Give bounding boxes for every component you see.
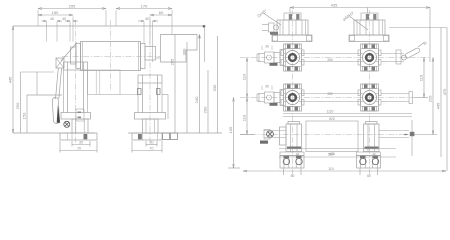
row3 axis centerline: [240, 134, 412, 136]
svg-text:110: 110: [419, 74, 424, 81]
left dim chain inner: [228, 58, 254, 169]
rear box bottom extension: [120, 94, 138, 96]
svg-text:435: 435: [331, 2, 338, 7]
svg-text:60: 60: [367, 174, 371, 178]
bearing unit row1 right: [358, 44, 381, 71]
row1 shaft between units: [302, 53, 361, 55]
mid rail: [283, 113, 412, 115]
row2 left coupling stack: [257, 90, 286, 106]
left view dimension 150: [38, 14, 73, 16]
shaft stub right: [145, 47, 156, 61]
lever pivot block: [56, 58, 64, 68]
svg-text:150: 150: [22, 112, 27, 119]
row3 right side rods and dim: [379, 120, 412, 156]
shaft stub left: [71, 47, 77, 64]
svg-text:40: 40: [296, 152, 300, 156]
svg-text:30: 30: [265, 45, 269, 49]
bearing unit row1 left: [281, 44, 304, 71]
vertical centerline left column: [292, 10, 294, 176]
row2 axis centerline: [240, 97, 414, 99]
leader 2x45 top-left: [264, 14, 281, 26]
svg-text:280: 280: [327, 58, 333, 62]
row3 beam between columns: [306, 121, 358, 152]
svg-text:2x45°: 2x45°: [256, 8, 268, 18]
foot left: [280, 152, 304, 168]
left height dimension 445: [12, 26, 14, 133]
left view dimension 60: [150, 14, 172, 16]
svg-text:520: 520: [329, 117, 335, 121]
column right: [143, 119, 159, 133]
roller axis centerline: [62, 56, 160, 58]
lever handle: [52, 97, 60, 123]
row2 shaft between units: [302, 93, 361, 95]
pivot circle symbol: [64, 121, 70, 127]
roller body: [81, 42, 141, 71]
svg-text:150: 150: [52, 10, 59, 15]
extension lines top: [38, 10, 172, 62]
top dimension line: [290, 7, 430, 62]
handle side view: [402, 55, 407, 60]
roller left cap: [76, 44, 81, 69]
roller right cap: [141, 44, 146, 69]
right pedestal flange: [135, 113, 166, 120]
base line right: [128, 132, 222, 134]
left short dims: [21, 72, 55, 133]
svg-text:255: 255: [170, 58, 175, 65]
column left: [72, 119, 88, 133]
centerline pedestal left: [75, 20, 77, 143]
left step outline: [27, 94, 62, 96]
row3 right column side: [364, 122, 380, 152]
base line left: [13, 132, 95, 134]
svg-text:40: 40: [372, 152, 376, 156]
svg-text:330: 330: [212, 84, 217, 91]
svg-text:40: 40: [50, 17, 54, 21]
svg-text:280: 280: [327, 92, 333, 96]
bottom dimension chain: [243, 169, 446, 176]
bearing unit row2 left: [281, 84, 304, 111]
svg-text:60: 60: [291, 174, 295, 178]
row1 right shaft end and handle: [381, 50, 404, 64]
svg-text:70: 70: [150, 146, 154, 150]
svg-text:475: 475: [442, 88, 447, 95]
row1 axis centerline: [240, 57, 430, 59]
left view top dimension 170: [116, 8, 172, 10]
left pedestal flange: [61, 113, 91, 120]
right pedestal bosses: [138, 89, 142, 95]
base side blocks: [163, 133, 170, 140]
lever shaft: [56, 68, 59, 99]
lever leader: [61, 43, 77, 62]
svg-text:445: 445: [8, 76, 13, 83]
svg-text:110: 110: [328, 167, 334, 171]
svg-text:45: 45: [422, 41, 428, 46]
svg-text:110: 110: [242, 73, 247, 80]
row0 right bracket: [349, 13, 389, 42]
roller centerline: [110, 20, 112, 90]
row2 right shaft end: [381, 92, 413, 104]
svg-text:70: 70: [77, 146, 81, 150]
svg-text:295: 295: [69, 3, 76, 8]
svg-text:60: 60: [159, 10, 164, 15]
svg-text:445: 445: [436, 102, 441, 109]
foot right: [132, 133, 162, 140]
left view top dimension 295: [38, 8, 106, 10]
centerline pedestal right: [149, 20, 151, 143]
svg-text:195: 195: [228, 126, 233, 133]
row1 left coupling stack: [257, 50, 286, 66]
gearbox block: [161, 35, 198, 63]
svg-text:200: 200: [203, 106, 208, 113]
svg-text:⌀40H7: ⌀40H7: [342, 10, 356, 22]
svg-text:520: 520: [328, 152, 334, 156]
top outline line: [13, 25, 204, 27]
svg-text:1120: 1120: [327, 110, 334, 114]
row0 tail line right: [389, 27, 447, 29]
svg-text:170: 170: [141, 3, 148, 8]
row0 left coupling: [262, 23, 279, 32]
svg-text:110: 110: [242, 114, 247, 121]
svg-text:40: 40: [62, 17, 66, 21]
row3 left column side: [280, 122, 302, 152]
row3 pivot circle symbol: [267, 131, 274, 138]
base plate lines: [279, 148, 396, 150]
foot left: [60, 133, 97, 140]
svg-text:30: 30: [79, 140, 83, 144]
svg-text:300: 300: [181, 48, 186, 55]
row0 left bracket: [272, 13, 312, 42]
vertical centerline right column: [369, 10, 371, 176]
left pedestal: [64, 62, 88, 70]
lever arrow: [57, 105, 60, 123]
bottom dims right foot: [132, 141, 162, 153]
svg-text:40: 40: [145, 17, 149, 21]
leader d40 top-mid: [350, 17, 368, 31]
rear pedestal box under roller: [88, 70, 121, 95]
bearing unit row2 right: [358, 84, 381, 111]
label plate on pedestal: [76, 109, 84, 121]
right dim chain: [414, 28, 447, 172]
bottom dims left foot: [60, 141, 97, 153]
right pedestal: [138, 75, 162, 83]
svg-text:30: 30: [265, 85, 269, 89]
svg-text:240: 240: [194, 96, 199, 103]
svg-text:220: 220: [428, 95, 433, 102]
svg-text:30: 30: [150, 140, 154, 144]
svg-text:250: 250: [15, 102, 20, 109]
right height dim fan: [175, 35, 218, 134]
foot right: [357, 152, 381, 168]
